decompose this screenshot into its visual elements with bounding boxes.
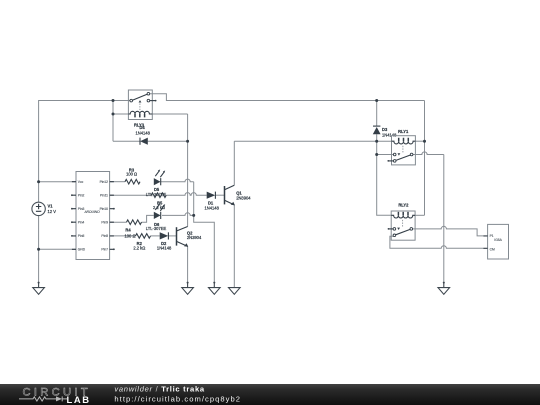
wire row B R5 to D1 with hops over x187.6 and x193.7 <box>166 193 207 196</box>
wire RLY3 coil left lead <box>113 113 128 115</box>
transistor Q1 2N3904 <box>225 185 252 205</box>
svg-text:Pin8: Pin8 <box>101 234 108 238</box>
wire Q1 emitter to ground <box>233 205 235 288</box>
svg-text:LTL-307EE: LTL-307EE <box>146 226 167 231</box>
wire Q2 emitter to ground <box>187 246 189 282</box>
wire RLY3 throw jog to right rail <box>150 94 425 101</box>
relay RLY1 switch <box>387 146 413 162</box>
relay RLY3 box <box>128 90 152 128</box>
svg-text:D4: D4 <box>139 125 145 130</box>
wire vertical x193.7 LED cathode bus <box>194 182 215 283</box>
resistor R4 100 <box>124 220 141 239</box>
LED D6 LTL-307EE <box>146 203 167 231</box>
wire vertical x187.6 coil-right down to Q2 collector <box>187 114 189 227</box>
wire node branch x113 (coil/D4 tap) <box>112 101 114 142</box>
relay RLY3 coil <box>128 111 152 117</box>
transistor Q2 2N3904 <box>177 227 202 247</box>
svg-text:P1: P1 <box>490 234 494 238</box>
wire vertical x443.8 to ground <box>443 155 445 283</box>
resistor R5 2.2k <box>151 193 166 210</box>
wire row D Pin8 to R2 <box>110 235 136 237</box>
svg-text:2N3904: 2N3904 <box>236 196 251 201</box>
relay RLY1 box <box>392 129 416 165</box>
pin stubs ARDUINO left <box>71 182 76 250</box>
svg-text:1N4148: 1N4148 <box>382 133 397 138</box>
wire Q1 collector up to relay coil row <box>233 141 235 185</box>
svg-text:Pin4: Pin4 <box>78 220 85 224</box>
relay RLY3 switch <box>130 92 157 110</box>
svg-text:Pin9: Pin9 <box>101 220 108 224</box>
wire RLY1 coil right lead to right rail <box>415 140 424 142</box>
relay RLY2 box <box>391 202 415 240</box>
wire RLY3 coil right lead to x187.6 <box>152 113 187 115</box>
wire row A D5 to corner x193.7 with hop over x187.6 <box>161 179 194 182</box>
wire D4 row right segment <box>148 140 188 142</box>
wire row B D1 to Q1 base <box>216 194 225 196</box>
svg-text:RLY2: RLY2 <box>398 202 409 207</box>
svg-text:Pin3: Pin3 <box>78 207 85 211</box>
wire top rail from V1 to relay RLY3 common <box>39 101 130 203</box>
resistor R2 2.2k <box>133 234 150 251</box>
wire GND pin to left rail <box>39 248 76 250</box>
wire row D D2 to Q2 base <box>169 235 177 237</box>
svg-text:1N4148: 1N4148 <box>205 205 220 210</box>
svg-text:V1: V1 <box>48 204 54 209</box>
wire Vcc pin to left rail <box>39 181 76 183</box>
wire V1 bottom to ground rail with GND tap <box>38 216 40 283</box>
wire right rail down to RLY2 coil right <box>424 101 426 216</box>
wire RLY1 switch right to down rail with hop over x424.5 <box>413 152 444 155</box>
svg-text:Vcc: Vcc <box>78 180 84 184</box>
svg-text:Pin11: Pin11 <box>100 193 108 197</box>
wire RLY2 common to IG5A P1 with hop over x443.8 <box>413 226 484 236</box>
wire RLY2 NC contact to IG5A CM with hop over x443.8 <box>390 236 483 248</box>
svg-text:GND: GND <box>78 248 86 252</box>
svg-text:1N4148: 1N4148 <box>136 131 151 136</box>
relay RLY2 switch <box>388 220 413 237</box>
wire D3 top to rail <box>376 101 378 126</box>
svg-text:LAB: LAB <box>67 394 91 405</box>
wire row C D6 to junction x193.7 with hop over x187.6 <box>162 213 194 216</box>
diode D2 1N4148 <box>157 232 172 250</box>
wire row B Pin11 to R5 <box>110 194 152 196</box>
svg-text:Pin7: Pin7 <box>101 248 108 252</box>
voltage source V1 12V <box>32 202 56 215</box>
svg-text:Pin5: Pin5 <box>78 234 85 238</box>
svg-text:2.2 kΩ: 2.2 kΩ <box>133 245 145 250</box>
logo squiggle resistor+diode <box>19 396 68 401</box>
LED D5 LTL-307EE <box>146 169 167 196</box>
svg-text:Pin12: Pin12 <box>100 180 109 184</box>
svg-text:Q1: Q1 <box>236 190 242 195</box>
wire RLY1 switch left lead <box>377 154 394 156</box>
diode D4 1N4148 <box>136 125 151 145</box>
svg-text:100 Ω: 100 Ω <box>126 172 137 177</box>
ground (Q2 emitter) <box>182 282 194 295</box>
wire row C R4 jog up to D6 <box>142 215 154 222</box>
ground (LED cathode bus) <box>209 282 221 295</box>
IG5A box P1/CM <box>483 224 508 259</box>
svg-text:ARDUINO: ARDUINO <box>83 210 100 214</box>
svg-text:1N4148: 1N4148 <box>157 245 172 250</box>
svg-text:Pin2: Pin2 <box>78 193 85 197</box>
wire D4 row left segment <box>113 140 140 142</box>
svg-text:http://circuitlab.com/cpq8yb2: http://circuitlab.com/cpq8yb2 <box>114 395 241 404</box>
svg-text:D3: D3 <box>382 127 388 132</box>
pin stubs ARDUINO right <box>110 182 115 251</box>
relay RLY1 coil <box>392 138 416 144</box>
wire RLY2 coil right lead <box>415 214 424 216</box>
node junction dots <box>37 99 426 251</box>
wire row D R2 to D2 <box>151 235 160 237</box>
svg-text:12 V: 12 V <box>48 209 57 214</box>
svg-text:R4: R4 <box>125 227 131 232</box>
svg-text:100 Ω: 100 Ω <box>124 233 135 238</box>
svg-text:RLY1: RLY1 <box>398 129 409 134</box>
wire row A Pin12 to R3 <box>110 181 125 183</box>
ground (below V1) <box>33 282 45 295</box>
wire coil row Q1 to RLY1 coil left <box>234 140 391 142</box>
ARDUINO box U1 <box>76 172 110 260</box>
svg-text:Pin10: Pin10 <box>100 207 109 211</box>
ground (relay contact rail) <box>438 282 450 295</box>
wire D3 anode down to RLY2 coil left <box>377 134 392 215</box>
wire row C Pin9 to R4 <box>110 221 127 223</box>
svg-text:CM: CM <box>490 248 495 252</box>
ground (Q1 emitter) <box>229 288 241 295</box>
diode D1 1N4148 <box>205 192 220 211</box>
svg-text:vanwilder / Trlic traka: vanwilder / Trlic traka <box>114 385 204 394</box>
svg-text:IG5A: IG5A <box>494 238 502 242</box>
svg-text:2N3904: 2N3904 <box>187 235 202 240</box>
resistor R3 100 <box>125 167 140 184</box>
relay RLY2 coil <box>391 212 415 218</box>
diode D3 1N4148 <box>373 126 397 137</box>
